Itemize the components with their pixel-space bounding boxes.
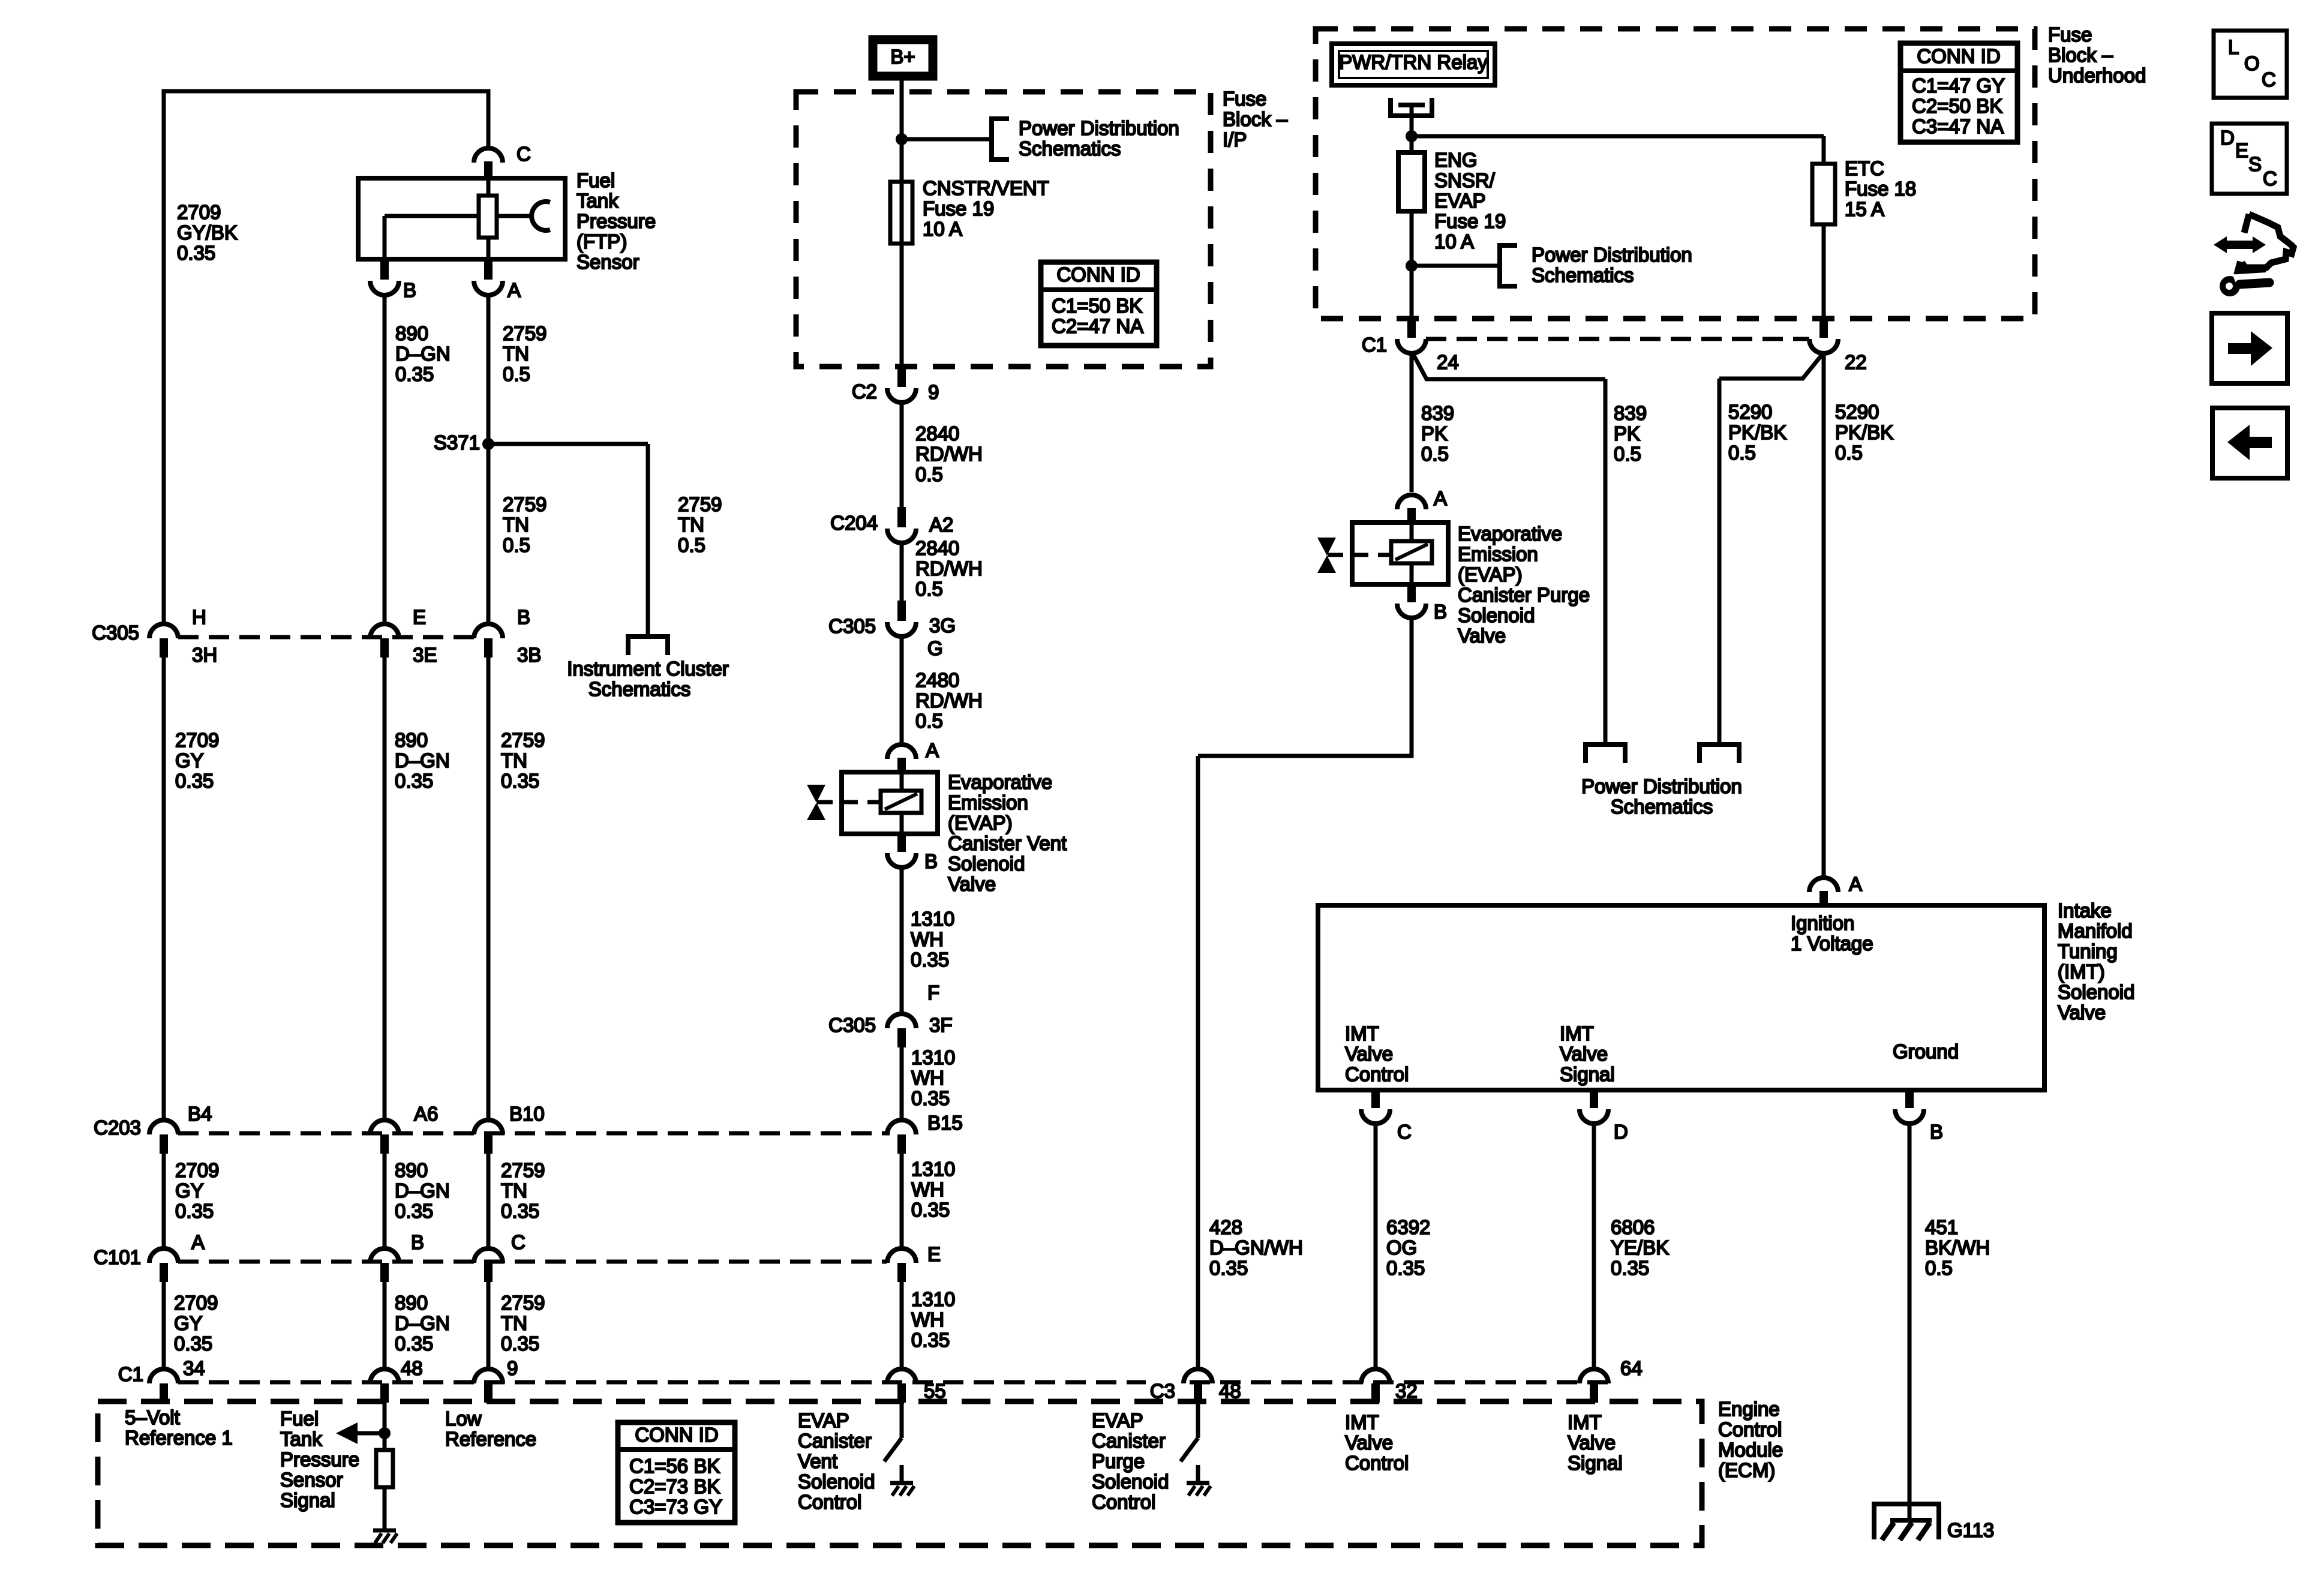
vent valve coil: [881, 772, 921, 834]
svg-text:0.5: 0.5: [1614, 443, 1641, 465]
wire 5290 PK/BK branch: [1719, 353, 1823, 745]
svg-text:890: 890: [395, 729, 428, 751]
svg-text:0.5: 0.5: [915, 578, 943, 600]
wire ENG fuse to C1-24: [1410, 266, 1414, 319]
svg-text:0.35: 0.35: [911, 1087, 950, 1109]
svg-text:TN: TN: [678, 514, 704, 536]
svg-text:64: 64: [1620, 1357, 1643, 1379]
svg-text:Power Distribution: Power Distribution: [1581, 775, 1742, 797]
svg-text:Reference: Reference: [445, 1428, 536, 1450]
svg-text:B+: B+: [890, 46, 915, 68]
ECM pin 64: [1580, 1357, 1643, 1403]
wire 890 D-GN C203 to C101: [383, 1154, 387, 1247]
svg-text:C2=50 BK: C2=50 BK: [1912, 95, 2002, 117]
wire label 890 D-GN 0.35: [395, 729, 450, 792]
wire label 2840 RD/WH 0.5: [915, 422, 983, 485]
svg-text:E: E: [413, 606, 426, 628]
svg-text:RD/WH: RD/WH: [915, 689, 983, 712]
svg-text:0.35: 0.35: [911, 948, 949, 971]
svg-text:B10: B10: [509, 1103, 545, 1125]
ECM pin 55: [887, 1369, 946, 1403]
svg-text:Block –: Block –: [1223, 108, 1288, 130]
connector C305 pin 3G: [828, 601, 956, 659]
svg-text:TN: TN: [501, 1312, 527, 1334]
IMT valve pin A ignition: [1809, 873, 1862, 905]
wire relay to ETC fuse: [1412, 134, 1824, 139]
svg-text:ETC: ETC: [1845, 157, 1884, 179]
label Power Distribution Schematics: [1019, 117, 1179, 160]
wire label 2759 TN 0.5: [503, 322, 547, 385]
svg-text:O: O: [2244, 52, 2260, 74]
svg-text:2709: 2709: [177, 201, 221, 223]
svg-text:0.35: 0.35: [501, 1332, 539, 1355]
wire label 1310 WH 0.35: [911, 1046, 955, 1109]
svg-text:48: 48: [401, 1357, 423, 1379]
svg-text:0.35: 0.35: [395, 1332, 433, 1355]
ECM EVAP purge driver switch: [1181, 1403, 1198, 1461]
underhood connector pin C1-24: [1362, 319, 1459, 373]
ECM connector dashed line C3: [1190, 1380, 1614, 1385]
connector C101 dashed line: [178, 1260, 887, 1264]
wire 2840 RD/WH to C305: [900, 543, 904, 601]
connector C305 pin 3F: [828, 981, 952, 1047]
svg-text:0.35: 0.35: [501, 1200, 539, 1222]
svg-text:C1=47 GY: C1=47 GY: [1912, 74, 2005, 97]
svg-text:C3=47 NA: C3=47 NA: [1912, 115, 2004, 137]
svg-text:2840: 2840: [915, 537, 959, 559]
icon LOC box: [2214, 31, 2287, 98]
svg-text:Ignition: Ignition: [1791, 912, 1854, 934]
svg-text:Manifold: Manifold: [2058, 920, 2133, 942]
icon arrow left box: [2212, 408, 2287, 478]
label IMT Valve Control: [1345, 1022, 1409, 1085]
wire 1310 WH B15 to C101 E: [900, 1154, 904, 1247]
svg-text:0.35: 0.35: [1611, 1257, 1649, 1279]
wire label 451 BK/WH 0.5: [1925, 1216, 1990, 1279]
svg-text:Tuning: Tuning: [2058, 940, 2118, 962]
svg-text:Control: Control: [798, 1491, 861, 1513]
svg-text:D–GN: D–GN: [395, 1179, 450, 1202]
svg-text:0.35: 0.35: [395, 770, 433, 792]
C203 pin B15: [887, 1112, 963, 1154]
wire B+ to CNSTR/VENT fuse: [900, 76, 904, 367]
svg-text:PK: PK: [1614, 422, 1640, 445]
ECM EVAP purge driver ground: [1187, 1465, 1211, 1496]
C203 pin B4: [149, 1103, 212, 1154]
svg-text:B: B: [411, 1231, 424, 1253]
fuse ENG SNSR/EVAP Fuse 19 10A: [1398, 152, 1425, 211]
C305 pin B: [474, 606, 541, 666]
svg-text:F: F: [927, 981, 939, 1004]
branch wire to power distribution: [902, 137, 992, 142]
label Instrument Cluster Schematics: [567, 658, 729, 700]
wire label 2759 TN 0.5: [503, 493, 547, 556]
wire 2480 RD/WH to vent valve: [900, 637, 904, 745]
connector C305 dashed line: [178, 635, 474, 640]
svg-text:(ECM): (ECM): [1718, 1459, 1775, 1481]
svg-text:Evaporative: Evaporative: [1458, 523, 1562, 545]
wire 839 PK pin 24 to purge valve: [1410, 353, 1414, 492]
svg-text:PWR/TRN Relay: PWR/TRN Relay: [1339, 51, 1488, 73]
FTP sensor connector pin C: [474, 143, 531, 177]
svg-text:839: 839: [1614, 402, 1647, 424]
label IMT Valve Signal: [1560, 1022, 1615, 1085]
svg-text:2840: 2840: [915, 422, 959, 445]
wire 2709 GY/BK from FTP pin C to C305 pin H: [164, 91, 488, 624]
svg-text:C305: C305: [828, 1014, 876, 1036]
svg-text:10 A: 10 A: [923, 218, 962, 240]
svg-text:Fuse 19: Fuse 19: [923, 197, 994, 220]
svg-text:C: C: [2263, 167, 2277, 190]
svg-text:I/P: I/P: [1223, 128, 1247, 151]
svg-text:Valve: Valve: [1568, 1431, 1616, 1454]
svg-text:0.35: 0.35: [174, 1332, 212, 1355]
wire ETC fuse vertical: [1822, 136, 1826, 164]
svg-text:2709: 2709: [175, 1159, 219, 1181]
C203 pin A6: [370, 1103, 438, 1154]
svg-text:5290: 5290: [1835, 401, 1879, 423]
svg-text:0.35: 0.35: [911, 1199, 950, 1221]
svg-text:Schematics: Schematics: [1532, 264, 1634, 286]
FTP pressure transducer symbol: [497, 202, 550, 230]
svg-text:Schematics: Schematics: [588, 678, 691, 700]
svg-text:B: B: [924, 850, 938, 872]
IMT valve pin D: [1580, 1090, 1628, 1143]
svg-text:A: A: [508, 279, 521, 301]
svg-text:1 Voltage: 1 Voltage: [1791, 932, 1873, 954]
svg-text:H: H: [192, 606, 206, 628]
svg-text:5290: 5290: [1728, 401, 1772, 423]
wire 2709 GY C203 to C101: [162, 1154, 166, 1247]
svg-text:0.5: 0.5: [1728, 442, 1756, 464]
svg-text:6806: 6806: [1611, 1216, 1655, 1238]
wire 890 D-GN C305 to C203: [383, 658, 387, 1119]
svg-text:Valve: Valve: [948, 873, 996, 895]
svg-text:C101: C101: [94, 1246, 141, 1268]
svg-text:2759: 2759: [501, 1159, 545, 1181]
wire 2759 TN C203 to C101: [487, 1154, 491, 1247]
svg-text:Power Distribution: Power Distribution: [1532, 244, 1692, 266]
wire 2759 TN from FTP A to splice S371: [487, 295, 491, 444]
wire 451 BK/WH pin B to G113: [1908, 1124, 1912, 1520]
label IMT Valve Control (ECM): [1345, 1411, 1409, 1474]
C305 label: [92, 622, 139, 644]
ground G113: [1874, 1504, 1994, 1541]
svg-text:D–GN: D–GN: [395, 1312, 450, 1334]
svg-text:3F: 3F: [929, 1014, 953, 1036]
svg-text:Canister Vent: Canister Vent: [948, 832, 1067, 854]
label CNSTR/VENT Fuse 19 10 A: [923, 177, 1049, 240]
off-page connector power distribution: [992, 119, 1009, 160]
svg-text:451: 451: [1925, 1216, 1958, 1238]
svg-text:(EVAP): (EVAP): [948, 812, 1013, 834]
ECM pin 32: [1361, 1369, 1418, 1403]
wire 2759 TN C305 to C203: [487, 658, 491, 1119]
svg-text:G113: G113: [1947, 1519, 1994, 1541]
svg-text:C: C: [2262, 68, 2276, 91]
svg-text:Schematics: Schematics: [1611, 795, 1713, 818]
connector C2 pin 9: [852, 367, 939, 403]
svg-text:A: A: [926, 739, 939, 761]
wire label 1310 WH 0.35: [911, 908, 954, 971]
svg-text:9: 9: [507, 1357, 518, 1379]
svg-text:Canister Purge: Canister Purge: [1458, 584, 1590, 606]
label Evaporative Emission (EVAP) Canister Purge Solenoid Valve: [1458, 523, 1590, 647]
svg-text:Pressure: Pressure: [280, 1448, 359, 1470]
off-page connector to instrument cluster: [628, 637, 668, 655]
svg-text:PK/BK: PK/BK: [1835, 421, 1893, 443]
svg-text:0.5: 0.5: [678, 534, 705, 556]
junction below relay: [1406, 130, 1418, 142]
wire label 428 D-GN/WH 0.35: [1209, 1216, 1303, 1279]
svg-text:Solenoid: Solenoid: [798, 1470, 875, 1493]
svg-text:S371: S371: [434, 431, 480, 454]
wire 2709 GY C101 to ECM C1-34: [162, 1282, 166, 1368]
IMT valve pin B: [1895, 1090, 1943, 1143]
FTP internal wiper wire: [385, 216, 479, 262]
svg-text:890: 890: [395, 1292, 428, 1314]
svg-text:A: A: [1849, 873, 1862, 895]
svg-text:EVAP: EVAP: [1434, 190, 1486, 212]
svg-text:32: 32: [1395, 1380, 1418, 1402]
ECM FTP signal junction: [379, 1427, 391, 1439]
wire label 2840 RD/WH 0.5: [915, 537, 983, 600]
fuse CNSTR/VENT Fuse 19 10A: [890, 182, 912, 244]
svg-text:2759: 2759: [501, 729, 545, 751]
svg-text:B: B: [1434, 601, 1447, 623]
svg-text:Intake: Intake: [2058, 899, 2112, 921]
intake manifold tuning solenoid valve box: [1318, 905, 2044, 1090]
svg-text:Tank: Tank: [280, 1428, 322, 1450]
svg-text:PK: PK: [1421, 422, 1448, 445]
vent valve actuator dashed link: [817, 800, 881, 804]
svg-text:48: 48: [1219, 1380, 1241, 1402]
svg-text:Fuse: Fuse: [2048, 23, 2092, 46]
purge valve coil: [1391, 523, 1432, 584]
purge valve actuator dashed link: [1328, 553, 1391, 557]
svg-text:TN: TN: [503, 514, 529, 536]
svg-text:2709: 2709: [175, 729, 219, 751]
C203 label: [94, 1116, 141, 1139]
svg-text:D: D: [1614, 1121, 1628, 1143]
off-page connector power distribution 5290: [1700, 745, 1739, 763]
svg-text:1310: 1310: [911, 1158, 955, 1180]
svg-text:Fuel: Fuel: [280, 1407, 319, 1430]
ECM resistor ground: [373, 1487, 397, 1543]
svg-text:0.35: 0.35: [1209, 1257, 1248, 1279]
svg-text:WH: WH: [911, 1308, 944, 1331]
svg-text:EVAP: EVAP: [1092, 1409, 1143, 1431]
svg-text:1310: 1310: [911, 908, 954, 930]
FTP connector pin B: [370, 262, 416, 301]
wire 2759 TN C101 to ECM C1-9: [487, 1282, 491, 1368]
svg-text:Signal: Signal: [1568, 1452, 1623, 1474]
IMT valve pin C: [1361, 1090, 1412, 1143]
svg-text:L: L: [2228, 36, 2239, 58]
svg-text:0.5: 0.5: [915, 463, 943, 485]
svg-text:TN: TN: [501, 1179, 527, 1202]
svg-text:0.35: 0.35: [501, 770, 539, 792]
svg-text:C: C: [1397, 1121, 1412, 1143]
svg-text:Schematics: Schematics: [1019, 137, 1121, 160]
svg-text:TN: TN: [503, 343, 529, 365]
wire label 839 PK 0.5: [1614, 402, 1647, 465]
svg-text:Fuel: Fuel: [577, 169, 615, 191]
svg-text:Module: Module: [1718, 1439, 1783, 1461]
junction to power distribution: [1406, 260, 1418, 272]
svg-text:RD/WH: RD/WH: [915, 443, 983, 465]
svg-text:Fuse: Fuse: [1223, 88, 1266, 110]
branch wire to power distribution: [1412, 264, 1500, 268]
svg-text:Canister: Canister: [798, 1430, 872, 1452]
svg-text:0.35: 0.35: [175, 1200, 214, 1222]
svg-text:Purge: Purge: [1092, 1450, 1145, 1472]
C3 label: [1150, 1380, 1175, 1402]
svg-text:15 A: 15 A: [1845, 198, 1884, 220]
fuse block underhood dashed box: [1316, 29, 2035, 319]
svg-text:9: 9: [928, 381, 939, 403]
wire label 1310 WH 0.35: [911, 1288, 955, 1351]
C101 pin A: [149, 1231, 205, 1282]
wire label 839 PK 0.5: [1421, 402, 1454, 465]
svg-text:0.5: 0.5: [1421, 443, 1449, 465]
svg-text:C3=73 GY: C3=73 GY: [629, 1496, 722, 1518]
svg-text:Control: Control: [1718, 1418, 1782, 1440]
svg-text:B: B: [403, 279, 416, 301]
fuse ETC Fuse 18 15A: [1812, 164, 1835, 224]
ECM EVAP vent driver ground: [890, 1465, 914, 1496]
svg-text:B: B: [517, 606, 530, 628]
battery B+ symbol: [873, 40, 933, 76]
svg-text:24: 24: [1437, 351, 1459, 373]
svg-text:IMT: IMT: [1345, 1022, 1379, 1044]
off-page connector power distribution UH: [1500, 245, 1517, 286]
svg-text:CONN ID: CONN ID: [1056, 263, 1140, 286]
svg-text:EVAP: EVAP: [798, 1409, 849, 1431]
svg-text:S: S: [2248, 153, 2262, 175]
svg-text:CNSTR/VENT: CNSTR/VENT: [923, 177, 1049, 199]
svg-text:C305: C305: [92, 622, 139, 644]
svg-text:D–GN: D–GN: [395, 343, 451, 365]
svg-text:PK/BK: PK/BK: [1728, 421, 1786, 443]
wire label 5290 PK/BK 0.5: [1835, 401, 1893, 464]
svg-text:GY: GY: [174, 1312, 203, 1334]
wire label 890 D-GN 0.35: [395, 322, 451, 385]
wire label 6806 YE/BK 0.35: [1611, 1216, 1669, 1279]
svg-text:Solenoid: Solenoid: [1458, 604, 1535, 626]
svg-text:Evaporative: Evaporative: [948, 771, 1052, 793]
wire label 2709 GY 0.35: [175, 1159, 219, 1222]
svg-text:A6: A6: [414, 1103, 438, 1125]
svg-text:10 A: 10 A: [1434, 230, 1474, 253]
svg-text:Control: Control: [1092, 1491, 1155, 1513]
svg-text:C1: C1: [1362, 334, 1387, 356]
ECM pin 48: [370, 1357, 423, 1403]
wire label 6392 OG 0.35: [1386, 1216, 1430, 1279]
svg-text:0.5: 0.5: [1835, 442, 1863, 464]
svg-text:55: 55: [924, 1380, 946, 1402]
svg-text:3G: 3G: [929, 614, 956, 637]
svg-text:WH: WH: [911, 1067, 944, 1089]
wire label 2759 TN 0.35: [501, 1159, 545, 1222]
C305 pin E: [370, 606, 437, 666]
svg-text:Valve: Valve: [1345, 1043, 1393, 1065]
label Fuse Block - I/P: [1223, 88, 1288, 151]
wire 2840 RD/WH to C204: [900, 403, 904, 507]
svg-text:GY: GY: [175, 1179, 204, 1202]
svg-text:TN: TN: [501, 749, 527, 772]
ECM pin C3-48: [1184, 1369, 1241, 1403]
fuse block I/P CONN ID table: [1038, 262, 1159, 346]
svg-text:Solenoid: Solenoid: [1092, 1470, 1169, 1493]
svg-text:Underhood: Underhood: [2048, 64, 2146, 86]
svg-text:0.35: 0.35: [175, 770, 214, 792]
svg-text:C2=47 NA: C2=47 NA: [1052, 315, 1143, 337]
ECM FTP signal arrow: [336, 1422, 385, 1444]
svg-text:0.35: 0.35: [395, 1200, 433, 1222]
wire ENG fuse down: [1410, 211, 1414, 266]
svg-text:WH: WH: [911, 928, 944, 950]
wire 1310 WH to C203 B15: [900, 1047, 904, 1119]
wire label 2709 GY 0.35: [175, 729, 219, 792]
C101 label: [94, 1246, 141, 1268]
svg-text:890: 890: [395, 322, 428, 344]
svg-text:B4: B4: [188, 1103, 212, 1125]
underhood connector dashed line: [1426, 337, 1809, 341]
PWR/TRN relay box: [1332, 44, 1495, 85]
svg-text:E: E: [927, 1243, 941, 1265]
underhood connector pin 22: [1809, 319, 1867, 373]
svg-text:D: D: [2220, 127, 2235, 149]
fuse block I/P dashed box: [796, 92, 1211, 367]
svg-text:ENG: ENG: [1434, 149, 1478, 171]
C101 pin B: [370, 1231, 424, 1282]
svg-text:0.35: 0.35: [177, 242, 215, 264]
junction in fuse block: [896, 133, 908, 145]
wire 2709 GY C305 to C203: [162, 658, 166, 1119]
wire 1310 WH C101 E to ECM 55: [900, 1282, 904, 1368]
purge valve pin B: [1397, 584, 1447, 623]
svg-text:(FTP): (FTP): [577, 230, 627, 253]
svg-text:Canister: Canister: [1092, 1430, 1166, 1452]
svg-text:3H: 3H: [192, 644, 217, 666]
ECM connector dashed line C1: [178, 1380, 1146, 1385]
wire relay to ENG fuse: [1410, 136, 1414, 152]
C101 pin C: [474, 1231, 526, 1282]
icon DESC box: [2212, 124, 2287, 194]
off-page connector power distribution 839: [1586, 745, 1625, 763]
svg-text:B15: B15: [927, 1112, 963, 1134]
label Fuel Tank Pressure (FTP) Sensor: [577, 169, 656, 273]
svg-text:C305: C305: [828, 615, 876, 637]
wire 6392 OG pin C to ECM 32: [1374, 1124, 1378, 1368]
svg-text:BK/WH: BK/WH: [1925, 1236, 1990, 1259]
svg-text:(IMT): (IMT): [2058, 960, 2105, 983]
FTP internal resistor: [479, 176, 497, 262]
svg-text:0.5: 0.5: [915, 710, 943, 732]
icon arrow right box: [2212, 313, 2287, 383]
svg-text:Emission: Emission: [948, 791, 1028, 813]
svg-text:GY/BK: GY/BK: [177, 221, 238, 244]
wire 428 D-GN/WH purge B to ECM C3-48: [1198, 618, 1412, 1368]
svg-text:IMT: IMT: [1560, 1022, 1594, 1044]
svg-text:Valve: Valve: [1345, 1431, 1393, 1454]
svg-text:Signal: Signal: [280, 1489, 335, 1511]
svg-text:YE/BK: YE/BK: [1611, 1236, 1669, 1259]
wire 2759 TN from S371 to C305 B: [487, 444, 491, 624]
label Fuel Tank Pressure Sensor Signal: [280, 1407, 359, 1511]
svg-text:Instrument Cluster: Instrument Cluster: [567, 658, 729, 680]
